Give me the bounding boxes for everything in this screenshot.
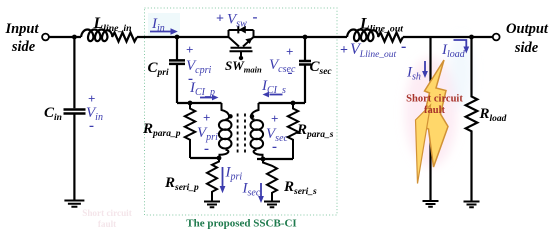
ground (R_seri_p): [204, 202, 220, 208]
svg-text:The proposed SSCB-CI: The proposed SSCB-CI: [186, 217, 296, 229]
wire: main top rail segments: [49, 36, 493, 38]
arrow I_in: [150, 31, 171, 33]
arrow I_sec: [260, 183, 262, 196]
svg-text:+: +: [271, 111, 278, 126]
resistor part of L_line_out: [378, 33, 403, 42]
resistor R_load: [466, 37, 478, 202]
secondary winding L_sec: [251, 103, 259, 120]
wire: primary bottom rail: [190, 157, 219, 159]
svg-text:Input: Input: [4, 21, 39, 37]
wire: secondary bottom rail: [257, 158, 293, 160]
dashed box: The proposed SSCB-CI: [145, 8, 338, 215]
svg-text:-: -: [89, 118, 94, 134]
ground (fault): [423, 201, 439, 207]
svg-text:+: +: [286, 44, 293, 59]
svg-text:+: +: [340, 43, 348, 58]
ground (R_seri_s): [264, 202, 280, 208]
svg-text:+: +: [88, 91, 95, 106]
svg-text:Short circuit: Short circuit: [406, 94, 463, 105]
arrow I_CI_s: [270, 94, 283, 96]
wire: primary top rail: [177, 102, 222, 104]
svg-text:-: -: [253, 10, 258, 26]
svg-text:side: side: [514, 40, 539, 56]
arrow I_pri: [222, 167, 224, 187]
emitter arrow of SW_main: [245, 38, 252, 44]
wire: secondary top rail: [259, 102, 306, 104]
ground (input): [64, 201, 84, 207]
resistor R_seri_s: [263, 159, 277, 202]
input terminal: [42, 34, 49, 41]
svg-text:Short circuit: Short circuit: [82, 208, 133, 218]
IGBT switch SW_main: [229, 26, 254, 56]
wire: C_sec branch: [304, 37, 306, 103]
svg-text:fault: fault: [98, 219, 117, 229]
lightning bolt lower spike: [416, 105, 431, 184]
primary winding L_pri: [222, 103, 230, 120]
node on secondary rail: [291, 101, 296, 106]
arrow I_sh: [424, 61, 426, 71]
node secondary bottom: [261, 157, 266, 162]
svg-text:-: -: [272, 139, 277, 155]
svg-text:-: -: [288, 65, 293, 81]
gate dot of SW_main: [239, 56, 243, 60]
inductor L_line_out: [347, 30, 379, 42]
svg-text:fault: fault: [424, 105, 446, 116]
ground (R_load): [464, 202, 480, 208]
output terminal: [493, 34, 500, 41]
svg-text:+: +: [203, 110, 210, 125]
artifact tint behind I_in: [148, 13, 180, 37]
svg-text:+: +: [216, 12, 224, 27]
wire: C_pri branch: [176, 37, 178, 103]
resistor R_seri_p: [207, 158, 219, 202]
node on primary rail: [188, 101, 193, 106]
node: C_in junction: [72, 35, 77, 40]
arrow I_load (elbow): [454, 40, 467, 47]
lightning bolt: [422, 60, 449, 167]
capacitor C_sec: [299, 61, 311, 65]
inductor L_line_in: [81, 30, 113, 42]
capacitor C_in: [64, 110, 86, 114]
polarity dot secondary: [250, 114, 254, 118]
ghost text: Short circuit fault (faint artifact): [82, 208, 133, 229]
node: C_pri junction: [175, 35, 180, 40]
svg-text:-: -: [401, 38, 406, 55]
resistor R_para_s: [288, 103, 298, 159]
node: C_sec junction: [303, 35, 308, 40]
arrow I_CI_p: [200, 97, 212, 99]
resistor part of L_line_in: [112, 33, 137, 42]
resistor R_para_p: [185, 103, 195, 158]
svg-text:Output: Output: [506, 21, 549, 37]
wire: C_in branch: [73, 37, 75, 201]
polarity dot primary: [228, 114, 232, 118]
diode of SW_main (filled): [239, 26, 246, 34]
wire: short-circuit fault branch: [429, 37, 431, 201]
node primary bottom: [217, 156, 222, 161]
svg-text:-: -: [204, 141, 209, 157]
transformer core: [237, 114, 239, 155]
svg-text:+: +: [186, 42, 193, 57]
capacitor C_pri: [169, 60, 185, 64]
svg-text:side: side: [11, 39, 36, 55]
artifact glow behind lightning bolt: [405, 36, 473, 167]
node: R_load junction: [469, 35, 474, 40]
